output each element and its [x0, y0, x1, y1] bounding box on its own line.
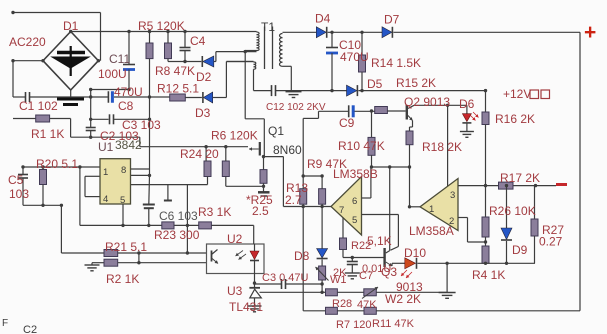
- svg-text:C5: C5: [8, 173, 24, 187]
- svg-text:100U: 100U: [98, 67, 127, 81]
- svg-text:3842: 3842: [115, 138, 142, 152]
- svg-text:D6: D6: [459, 97, 475, 111]
- svg-text:5,1K: 5,1K: [367, 234, 392, 248]
- svg-text:R3 1K: R3 1K: [198, 205, 231, 219]
- svg-text:C12 102 2KV: C12 102 2KV: [266, 102, 326, 113]
- svg-text:R24 20: R24 20: [180, 147, 219, 161]
- svg-text:4: 4: [103, 194, 108, 205]
- svg-text:470U: 470U: [114, 85, 143, 99]
- svg-text:103: 103: [9, 187, 29, 201]
- svg-text:R10 47K: R10 47K: [338, 139, 385, 153]
- svg-text:1: 1: [103, 167, 108, 178]
- svg-text:R15 2K: R15 2K: [396, 76, 436, 90]
- svg-text:R28: R28: [332, 298, 352, 310]
- svg-text:D8: D8: [294, 249, 310, 263]
- svg-text:0.27: 0.27: [539, 235, 563, 249]
- svg-text:U2: U2: [227, 232, 243, 246]
- svg-text:3: 3: [450, 190, 455, 201]
- svg-text:R14 1.5K: R14 1.5K: [371, 56, 421, 70]
- svg-text:Q2 9013: Q2 9013: [404, 95, 450, 109]
- svg-text:8N60: 8N60: [273, 143, 302, 157]
- svg-text:6: 6: [352, 196, 357, 207]
- svg-text:Q3: Q3: [381, 265, 397, 279]
- svg-text:U3: U3: [227, 284, 243, 298]
- svg-text:TL431: TL431: [229, 300, 263, 314]
- svg-text:7: 7: [339, 205, 344, 216]
- svg-text:+12V: +12V: [503, 87, 531, 101]
- svg-text:R18 2K: R18 2K: [422, 140, 462, 154]
- svg-text:C1 102: C1 102: [19, 99, 58, 113]
- svg-text:D10: D10: [404, 246, 426, 260]
- svg-text:C11: C11: [109, 52, 130, 66]
- svg-text:C7: C7: [359, 270, 373, 282]
- svg-text:Q1: Q1: [268, 124, 284, 138]
- svg-text:5: 5: [352, 215, 357, 226]
- svg-text:C9: C9: [339, 116, 355, 130]
- svg-text:R5 120K: R5 120K: [138, 19, 185, 33]
- svg-text:R26 10K: R26 10K: [489, 204, 536, 218]
- svg-text:+: +: [584, 21, 596, 44]
- svg-text:2.7: 2.7: [285, 193, 302, 207]
- svg-text:C6 103: C6 103: [159, 209, 198, 223]
- svg-text:2.5: 2.5: [252, 204, 269, 218]
- svg-text:C3 0.47U: C3 0.47U: [262, 272, 309, 284]
- svg-text:R8 47K: R8 47K: [155, 64, 195, 78]
- svg-text:D4: D4: [315, 12, 331, 26]
- svg-text:R11 47K: R11 47K: [372, 318, 415, 330]
- svg-text:LM358A: LM358A: [409, 224, 454, 238]
- svg-text:R21 5.1: R21 5.1: [105, 240, 147, 254]
- svg-text:LM358B: LM358B: [333, 167, 378, 181]
- svg-text:C4: C4: [190, 34, 206, 48]
- svg-text:R1 1K: R1 1K: [31, 127, 64, 141]
- svg-text:R7 120: R7 120: [336, 319, 371, 331]
- svg-text:R12 5.1: R12 5.1: [157, 82, 199, 96]
- svg-text:W1: W1: [330, 274, 347, 286]
- svg-text:T1: T1: [261, 20, 275, 34]
- svg-text:D3: D3: [195, 106, 211, 120]
- svg-text:R20 5.1: R20 5.1: [36, 157, 78, 171]
- svg-text:F: F: [2, 318, 8, 329]
- svg-text:D1: D1: [63, 19, 79, 33]
- svg-text:W2 2K: W2 2K: [385, 292, 421, 306]
- svg-text:U1: U1: [98, 140, 114, 154]
- svg-text:R16 2K: R16 2K: [495, 112, 535, 126]
- svg-text:R23 300: R23 300: [154, 228, 200, 242]
- svg-text:470U: 470U: [340, 50, 369, 64]
- svg-text:R2 1K: R2 1K: [106, 272, 139, 286]
- svg-text:D7: D7: [384, 13, 400, 27]
- svg-text:C8: C8: [118, 99, 134, 113]
- svg-text:R6 120K: R6 120K: [211, 129, 258, 143]
- svg-text:C2: C2: [23, 324, 37, 334]
- svg-text:1: 1: [429, 204, 434, 215]
- svg-text:R17 2K: R17 2K: [500, 171, 540, 185]
- svg-text:D5: D5: [367, 77, 383, 91]
- svg-text:R4 1K: R4 1K: [472, 268, 505, 282]
- svg-text:AC220: AC220: [9, 35, 46, 49]
- svg-text:47K: 47K: [357, 299, 377, 311]
- svg-text:8: 8: [121, 165, 126, 176]
- svg-text:D9: D9: [512, 243, 528, 257]
